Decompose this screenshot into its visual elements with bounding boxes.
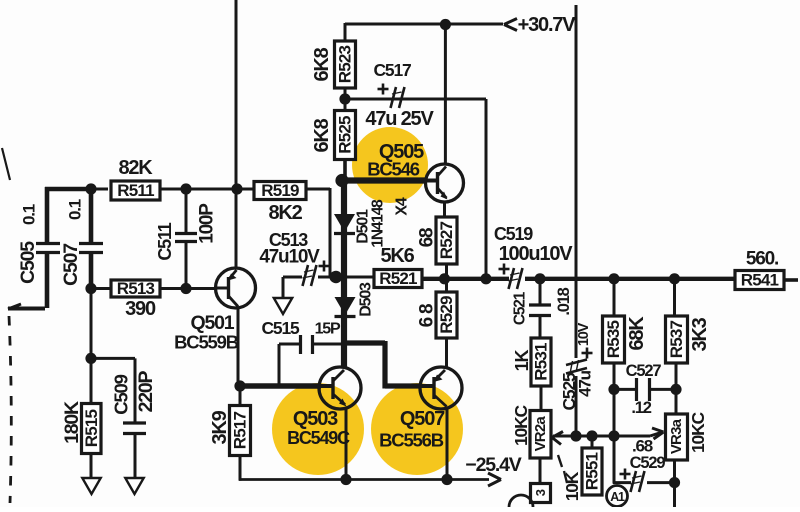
svg-text:R513: R513: [117, 279, 155, 298]
svg-text:R519: R519: [261, 181, 299, 200]
svg-text:R517: R517: [231, 411, 250, 449]
svg-text:R541: R541: [741, 271, 779, 290]
svg-text:BC559B: BC559B: [174, 332, 239, 353]
svg-text:C527: C527: [626, 362, 662, 380]
svg-text:47u10V: 47u10V: [259, 247, 320, 268]
svg-text:3K3: 3K3: [689, 317, 711, 351]
svg-text:R535: R535: [604, 320, 623, 358]
svg-text:R531: R531: [532, 343, 551, 381]
svg-text:R523: R523: [336, 45, 355, 83]
svg-text:0.1: 0.1: [20, 204, 39, 225]
svg-text:10KC: 10KC: [511, 404, 531, 446]
svg-text:0.1: 0.1: [66, 199, 85, 220]
svg-text:R521: R521: [379, 269, 417, 288]
svg-text:560.: 560.: [746, 249, 778, 270]
svg-text:1K: 1K: [512, 350, 532, 372]
svg-text:BC546: BC546: [367, 159, 419, 180]
svg-text:390: 390: [125, 298, 156, 320]
svg-text:C519: C519: [494, 224, 533, 244]
svg-text:Q503: Q503: [293, 408, 338, 430]
svg-text:BC556B: BC556B: [379, 430, 444, 451]
svg-text:8K2: 8K2: [268, 202, 302, 224]
svg-text:47u: 47u: [576, 370, 595, 397]
svg-text:C521: C521: [512, 291, 529, 325]
svg-text:VR2a: VR2a: [532, 416, 549, 452]
svg-text:+30.7V: +30.7V: [518, 14, 577, 36]
svg-text:BC549C: BC549C: [287, 428, 350, 448]
svg-text:1N4148: 1N4148: [370, 199, 387, 248]
svg-text:C515: C515: [261, 318, 300, 338]
svg-text:.68: .68: [632, 437, 653, 456]
svg-text:D503: D503: [358, 282, 375, 317]
svg-text:10K: 10K: [562, 471, 582, 501]
svg-text:100P: 100P: [197, 203, 218, 244]
svg-text:220P: 220P: [135, 370, 157, 412]
svg-text:C517: C517: [373, 60, 411, 80]
svg-text:C529: C529: [630, 454, 666, 472]
svg-text:100u10V: 100u10V: [499, 243, 574, 265]
svg-text:C511: C511: [155, 222, 175, 260]
svg-text:10KC: 10KC: [688, 411, 708, 453]
svg-text:6K8: 6K8: [311, 47, 333, 81]
svg-text:C507: C507: [60, 244, 82, 286]
svg-text:68: 68: [417, 228, 438, 247]
svg-text:R527: R527: [437, 221, 456, 259]
svg-text:3: 3: [533, 489, 548, 496]
svg-text:R525: R525: [336, 116, 355, 154]
svg-text:Q507: Q507: [400, 408, 445, 430]
svg-text:VR3a: VR3a: [668, 418, 685, 454]
svg-text:R511: R511: [117, 181, 154, 200]
svg-text:R537: R537: [667, 320, 686, 358]
svg-text:A1: A1: [610, 490, 625, 504]
svg-text:.12: .12: [631, 399, 651, 417]
svg-text:6 8: 6 8: [417, 304, 438, 327]
svg-text:−25.4V: −25.4V: [465, 454, 521, 476]
svg-text:.018: .018: [555, 287, 573, 315]
svg-text:R529: R529: [437, 296, 456, 334]
svg-text:6K8: 6K8: [311, 118, 333, 152]
svg-text:R551: R551: [583, 452, 602, 490]
svg-text:82K: 82K: [118, 157, 153, 179]
svg-text:C505: C505: [17, 241, 39, 284]
svg-text:X4: X4: [394, 197, 411, 215]
svg-text:R515: R515: [82, 409, 101, 447]
svg-text:C509: C509: [111, 374, 132, 414]
svg-text:15P: 15P: [315, 321, 341, 338]
svg-text:3K9: 3K9: [209, 410, 231, 444]
svg-text:180K: 180K: [61, 401, 83, 444]
svg-text:10V: 10V: [576, 322, 592, 346]
svg-text:68K: 68K: [626, 316, 648, 351]
svg-text:47u 25V: 47u 25V: [365, 108, 434, 130]
